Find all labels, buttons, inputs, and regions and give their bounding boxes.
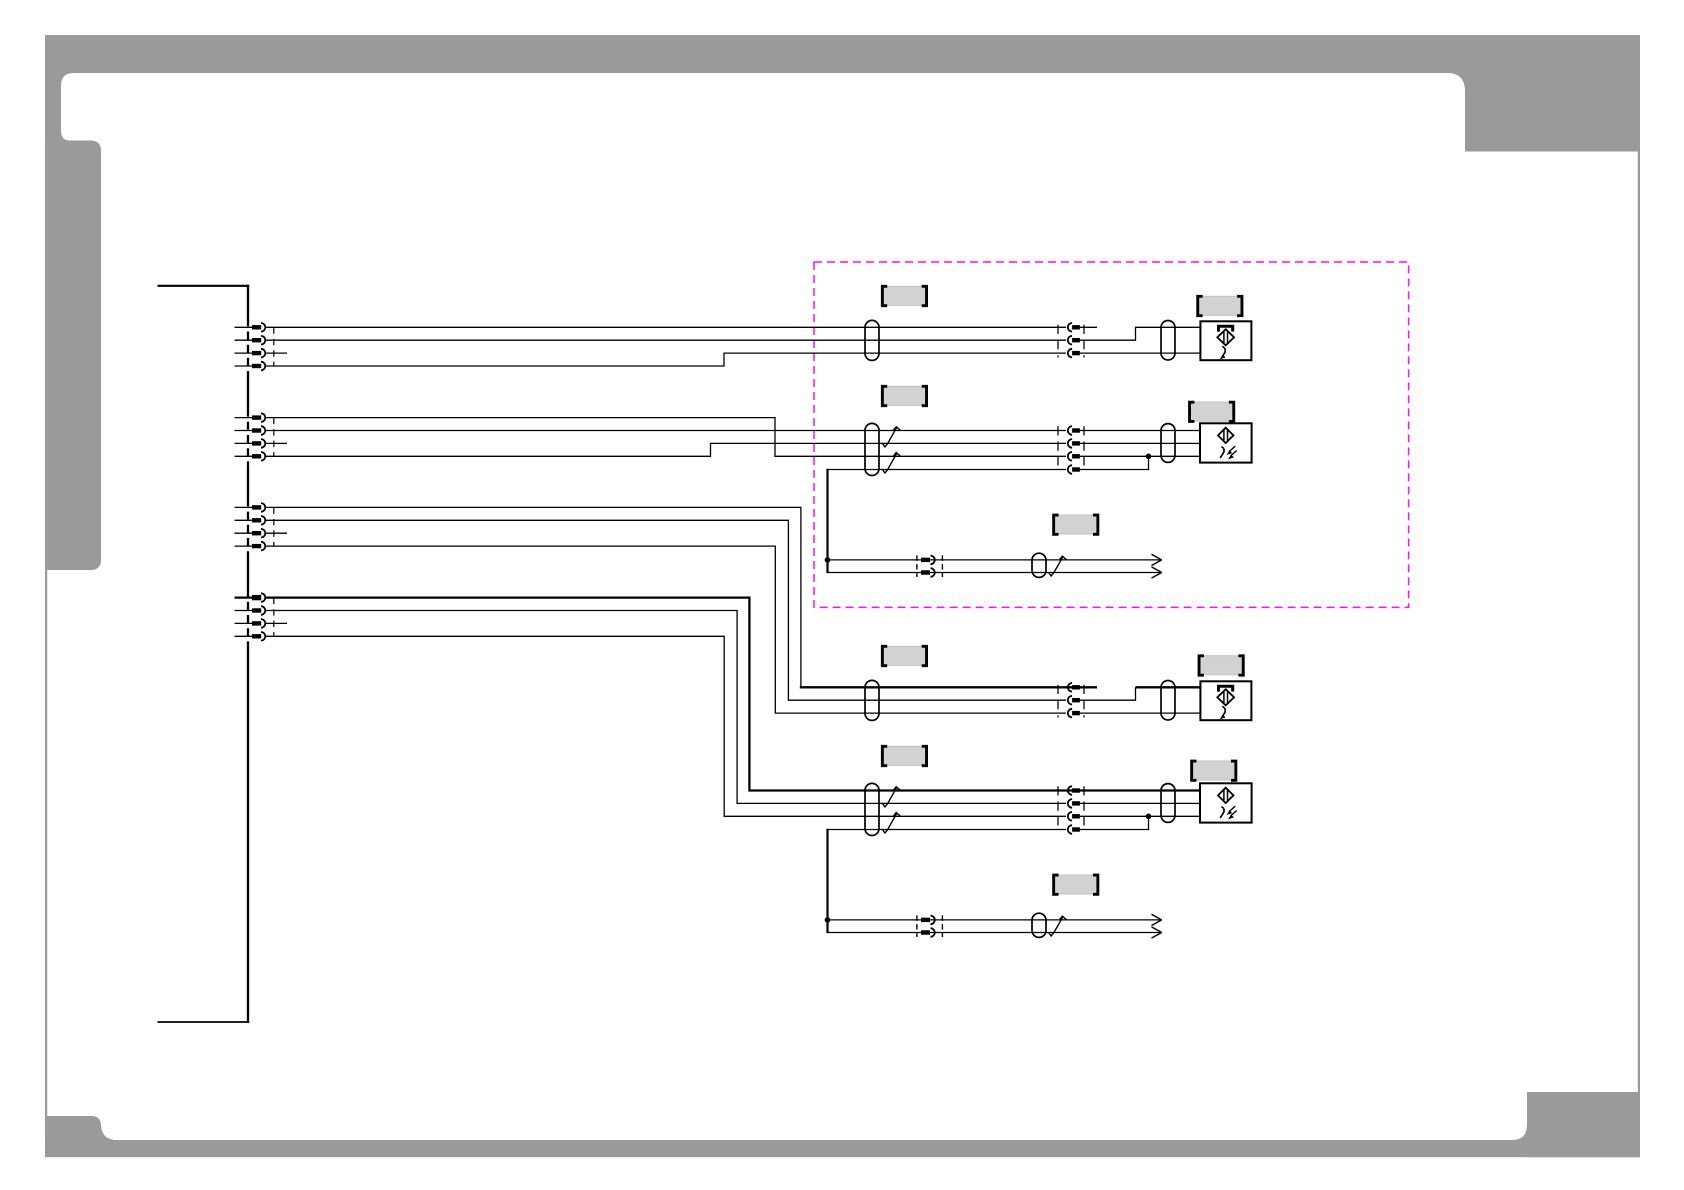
- cable loop subcircuit1: [1032, 553, 1046, 577]
- arrow subcircuit1 line2: [1152, 567, 1162, 573]
- inline connector sub1 dashed boundaries: [916, 555, 918, 577]
- connector CN4 pin 2: [235, 610, 254, 612]
- inline connector CN3b pin 2: [1068, 696, 1072, 705]
- label cable label 1: [882, 286, 925, 305]
- connector CN4 inner dashed line: [273, 598, 275, 637]
- inline connector CN1b pin 1: [1068, 323, 1072, 332]
- connector CN1 pin 4: [235, 365, 254, 367]
- wire circuit1 line2: [265, 339, 1066, 341]
- label subcircuit2 label: [1054, 875, 1097, 894]
- inline connector CN1b pin 3: [1068, 349, 1072, 358]
- connector CN1 pin 3 stub wire: [265, 352, 287, 354]
- wire circuit4 line2 from pin2: [265, 611, 1066, 804]
- cable loop circuit2: [865, 423, 879, 475]
- twist mark subcircuit2: [1049, 916, 1067, 936]
- cable loop circuit2 sensor side: [1161, 424, 1175, 463]
- inline connector CN3b dashed boundaries: [1057, 685, 1059, 718]
- cable loop circuit3 sensor side: [1161, 681, 1175, 721]
- cable loop circuit3: [865, 680, 879, 720]
- main harness bus vertical line: [247, 285, 249, 1023]
- wire circuit3 line1 bold run: [800, 686, 1097, 688]
- wire circuit2 line2 to sensor: [1080, 442, 1202, 444]
- connector CN2 pin 3 stub wire: [265, 442, 287, 444]
- inline connector CN2b pin 3: [1068, 452, 1072, 461]
- arrow subcircuit2 line1: [1152, 914, 1162, 920]
- inline connector sub2 pin1: [921, 918, 930, 922]
- wire circuit4 line3 to sensor: [1080, 815, 1202, 817]
- connector CN2 pin 1: [235, 417, 254, 419]
- connector CN1 pin 3: [235, 352, 254, 354]
- connector CN4 dashed boundary on bus: [246, 589, 250, 646]
- page frame: upper-left gray strip: [45, 35, 61, 141]
- page frame: bottom-right gray block: [1527, 1092, 1640, 1157]
- wire subcircuit2 line2: [826, 932, 1161, 934]
- inline connector sub2 pin2: [921, 930, 930, 934]
- twist mark circuit4 lower: [882, 813, 900, 834]
- bus top horizontal stub: [158, 285, 250, 287]
- wire circuit1 line1: [265, 326, 1066, 328]
- wire circuit2 line1 (from pin2): [265, 430, 1066, 432]
- wire circuit4 line2 to sensor: [1080, 802, 1202, 804]
- connector CN4 pin 4: [235, 635, 254, 637]
- inline connector CN4b pin 2: [1068, 799, 1072, 808]
- photo sensor PS4 box: [1200, 783, 1252, 822]
- junction circuit4: [1146, 814, 1152, 820]
- arrow subcircuit2 line2: [1152, 927, 1162, 933]
- cable loop subcircuit2: [1032, 913, 1046, 937]
- wire circuit2 line2 from pin4 with jog up: [265, 443, 1066, 456]
- wire circuit3 line1 from pin1 long route: [265, 507, 801, 687]
- page frame: thin left border line: [45, 73, 47, 1140]
- connector CN1 dashed boundary on bus: [246, 318, 250, 375]
- wire circuit2 line3 from pin1 with jog down: [265, 418, 1066, 457]
- label cable label 2: [882, 386, 925, 405]
- label sensor label 4: [1192, 761, 1235, 780]
- connector CN3 pin 2: [235, 519, 254, 521]
- junction subcircuit2: [825, 917, 831, 923]
- cable loop circuit1: [865, 320, 879, 360]
- arrow subcircuit1 line1: [1152, 554, 1162, 560]
- photo sensor PS3 box: [1200, 681, 1251, 720]
- wire circuit3 line3 to sensor: [1080, 712, 1202, 714]
- label cable label 4: [882, 746, 925, 765]
- connector CN3 pin 4: [235, 545, 254, 547]
- wire circuit1 stub after connector: [1080, 326, 1097, 328]
- wire circuit4 line3 from pin4: [265, 636, 1066, 816]
- twist mark circuit4 upper: [882, 787, 900, 807]
- wire circuit3 line1 bold to sensor: [1136, 686, 1202, 688]
- connector CN4 pin 3: [235, 622, 254, 624]
- inline connector sub1 pin1: [921, 558, 930, 562]
- photo sensor PS4 icon: [1218, 788, 1233, 803]
- inline connector CN4b pin 1: [1068, 786, 1072, 795]
- connector CN1 pin 1: [235, 326, 254, 328]
- label cable label 3: [882, 646, 925, 665]
- inline connector CN3b pin 1: [1068, 683, 1072, 692]
- cable loop circuit1 sensor side: [1161, 321, 1175, 360]
- connector CN2 pin 3: [235, 442, 254, 444]
- connector CN3 pin 3 stub wire: [265, 532, 287, 534]
- label sensor label 3: [1199, 656, 1242, 675]
- wire circuit1 line2 to sensor with jog up: [1080, 327, 1202, 340]
- wire circuit3 line2 from pin2 long route: [265, 520, 1066, 700]
- wire circuit4 ground drop: [826, 829, 828, 933]
- photo sensor PS2 box: [1200, 423, 1252, 462]
- wire circuit2 line1 to sensor: [1080, 430, 1202, 432]
- wire circuit2 line4 (ground return): [828, 469, 1067, 471]
- inline connector sub2 dashed boundaries: [916, 915, 918, 937]
- photo sensor PS3 icon: [1219, 686, 1233, 691]
- connector CN4 pin 1: [235, 596, 254, 598]
- wire circuit3 line2 to sensor with jog up: [1080, 687, 1136, 700]
- bus bottom horizontal stub: [158, 1021, 250, 1023]
- inline connector CN1b dashed boundaries: [1057, 325, 1059, 358]
- connector CN3 inner dashed line: [273, 507, 275, 546]
- label subcircuit1 label: [1054, 515, 1097, 534]
- page frame: bottom-left gray tab: [45, 1116, 101, 1140]
- inline connector CN4b pin 3: [1068, 812, 1072, 821]
- cable loop circuit4 sensor side: [1161, 784, 1175, 823]
- wire circuit4 line4 tap up to line3: [1080, 816, 1149, 829]
- twist mark subcircuit1: [1049, 556, 1067, 576]
- connector CN3 pin 1: [235, 506, 254, 508]
- inline connector CN2b pin 4: [1068, 465, 1072, 474]
- page frame: left gray tab: [45, 141, 101, 571]
- wire subcircuit1 line1: [828, 559, 1162, 561]
- connector CN3 dashed boundary on bus: [246, 498, 250, 555]
- page frame: thin right border line: [1638, 151, 1640, 1092]
- connector CN2 dashed boundary on bus: [246, 409, 250, 466]
- photo sensor PS1 box: [1200, 321, 1251, 360]
- connector CN3 pin 3: [235, 532, 254, 534]
- label sensor label 1: [1198, 296, 1241, 315]
- wire circuit2 line4 tap up to line3: [1080, 456, 1149, 469]
- cable loop circuit4: [865, 783, 879, 835]
- label sensor label 2: [1190, 402, 1233, 421]
- wire subcircuit2 line1: [828, 919, 1162, 921]
- connector CN2 pin 2: [235, 430, 254, 432]
- twist mark circuit2 lower: [882, 453, 900, 474]
- photo sensor PS2 icon: [1218, 428, 1233, 443]
- inline connector CN2b pin 2: [1068, 439, 1072, 448]
- connector CN2 pin 4: [235, 455, 254, 457]
- wire circuit3 line3 from pin4 long route: [265, 546, 1066, 713]
- page frame: top-right gray block: [1465, 35, 1640, 152]
- inline connector CN2b pin 1: [1068, 426, 1072, 435]
- inline connector CN4b dashed boundaries: [1057, 786, 1059, 825]
- junction subcircuit1: [825, 557, 831, 563]
- connector CN1 inner dashed line: [273, 327, 275, 366]
- connector CN4 pin 3 stub wire: [265, 622, 287, 624]
- inline connector CN4b pin 4: [1068, 825, 1072, 834]
- wire circuit1 line3 to sensor: [1080, 352, 1202, 354]
- page frame: top gray band: [45, 35, 1640, 73]
- connector CN1 pin 2: [235, 339, 254, 341]
- photo sensor PS1 icon: [1219, 326, 1233, 331]
- inline connector CN2b dashed boundaries: [1057, 426, 1059, 465]
- inline connector CN3b pin 3: [1068, 709, 1072, 718]
- wire circuit4 line4 (ground return): [828, 829, 1067, 831]
- connector CN2 inner dashed line: [273, 418, 275, 457]
- inline connector CN1b pin 2: [1068, 336, 1072, 345]
- magenta dashed highlight box: [814, 262, 1409, 607]
- wire subcircuit1 line2: [826, 572, 1161, 574]
- wire circuit4 line1 bold from pin1: [265, 598, 1201, 791]
- wire circuit2 ground drop: [826, 469, 828, 573]
- junction circuit2: [1146, 454, 1152, 460]
- wire circuit1 line3 from pin4 with jog: [265, 353, 1066, 366]
- page frame: bottom gray band: [45, 1140, 1640, 1157]
- wire circuit2 line3 to sensor: [1080, 455, 1202, 457]
- inline connector sub1 pin2: [921, 570, 930, 574]
- twist mark circuit2 upper: [882, 427, 900, 447]
